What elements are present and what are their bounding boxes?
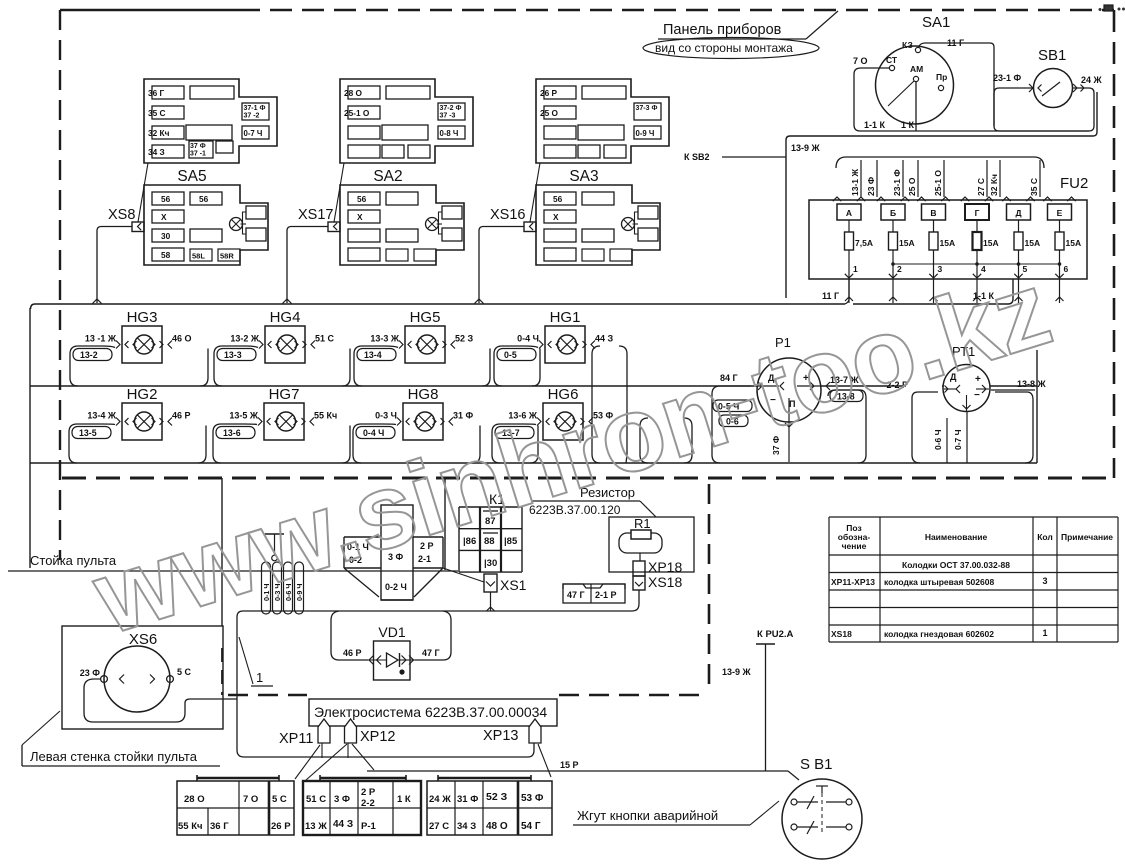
svg-text:37-2 Ф: 37-2 Ф	[440, 105, 462, 112]
svg-text:вид со стороны монтажа: вид со стороны монтажа	[655, 41, 793, 55]
svg-text:HG8: HG8	[408, 386, 439, 403]
svg-text:36 Г: 36 Г	[148, 88, 165, 98]
svg-text:13-5 Ж: 13-5 Ж	[229, 411, 259, 421]
svg-text:13 Ж: 13 Ж	[305, 821, 327, 832]
svg-text:1: 1	[853, 264, 858, 274]
svg-text:13-4 Ж: 13-4 Ж	[87, 411, 117, 421]
svg-text:−: −	[974, 390, 980, 401]
svg-text:X: X	[553, 212, 559, 222]
svg-text:27 С: 27 С	[429, 821, 449, 832]
svg-text:58R: 58R	[220, 252, 234, 261]
svg-text:1: 1	[1042, 628, 1047, 638]
svg-text:7 О: 7 О	[853, 56, 868, 66]
svg-text:15 Р: 15 Р	[560, 760, 579, 770]
svg-text:47 Г: 47 Г	[567, 590, 585, 600]
svg-text:13-3: 13-3	[224, 350, 242, 360]
svg-text:13 -1 Ж: 13 -1 Ж	[85, 334, 117, 344]
svg-text:36 Г: 36 Г	[210, 821, 229, 832]
svg-text:56: 56	[553, 194, 563, 204]
svg-text:32 Кч: 32 Кч	[989, 174, 999, 196]
svg-text:54 Г: 54 Г	[521, 821, 541, 832]
svg-text:26 Р: 26 Р	[271, 821, 291, 832]
svg-text:7 О: 7 О	[243, 794, 258, 805]
svg-text:Левая стенка стойки пульта: Левая стенка стойки пульта	[30, 749, 198, 764]
svg-text:1 К: 1 К	[901, 120, 915, 130]
svg-text:13-8 Ж: 13-8 Ж	[1017, 379, 1047, 389]
svg-text:SA3: SA3	[569, 168, 598, 185]
svg-text:13-3 Ж: 13-3 Ж	[370, 334, 400, 344]
svg-text:28 О: 28 О	[344, 88, 363, 98]
svg-text:HG4: HG4	[270, 309, 301, 326]
svg-text:23-1 Ф: 23-1 Ф	[892, 169, 902, 196]
svg-text:2: 2	[897, 264, 902, 274]
svg-text:56: 56	[199, 194, 209, 204]
svg-text:X: X	[357, 212, 363, 222]
svg-text:51 С: 51 С	[315, 334, 335, 344]
svg-text:1 К: 1 К	[397, 794, 411, 805]
svg-text:0-5: 0-5	[504, 350, 517, 360]
svg-text:XS1: XS1	[500, 577, 527, 593]
svg-text:R1: R1	[634, 516, 651, 531]
svg-text:Жгут кнопки аварийной: Жгут кнопки аварийной	[577, 808, 718, 823]
svg-text:К SB2: К SB2	[684, 152, 710, 162]
svg-text:ХР18: ХР18	[648, 559, 682, 575]
svg-text:3 Ф: 3 Ф	[334, 794, 350, 805]
svg-text:HG1: HG1	[550, 309, 581, 326]
svg-text:колодка гнездовая 602602: колодка гнездовая 602602	[884, 629, 994, 639]
svg-text:3: 3	[938, 264, 943, 274]
svg-text:15А: 15А	[940, 238, 956, 248]
svg-text:37-1 Ф: 37-1 Ф	[244, 105, 266, 112]
svg-text:13-1 Ж: 13-1 Ж	[850, 169, 860, 196]
svg-text:0-4 Ч: 0-4 Ч	[517, 334, 539, 344]
svg-text:15А: 15А	[983, 238, 999, 248]
svg-text:32 Кч: 32 Кч	[148, 128, 170, 138]
svg-text:0-2 Ч: 0-2 Ч	[385, 582, 407, 592]
svg-text:0-3 Ч: 0-3 Ч	[375, 411, 397, 421]
svg-text:Колодки ОСТ 37.00.032-88: Колодки ОСТ 37.00.032-88	[902, 560, 1010, 570]
svg-text:48 О: 48 О	[486, 821, 508, 832]
svg-text:Электросистема 6223В.37.00.000: Электросистема 6223В.37.00.00034	[314, 704, 547, 720]
svg-text:15А: 15А	[1025, 238, 1041, 248]
svg-text:HG5: HG5	[410, 309, 441, 326]
svg-text:ХР12: ХР12	[360, 729, 395, 745]
svg-text:0-8 Ч: 0-8 Ч	[440, 129, 459, 138]
svg-text:Пр: Пр	[936, 72, 947, 82]
svg-text:SA2: SA2	[373, 168, 402, 185]
svg-text:58: 58	[161, 250, 171, 260]
svg-text:SA5: SA5	[177, 168, 206, 185]
svg-text:56: 56	[161, 194, 171, 204]
svg-text:1-1 К: 1-1 К	[864, 120, 886, 130]
svg-text:чение: чение	[842, 541, 867, 551]
svg-text:0-6 Ч: 0-6 Ч	[933, 429, 943, 450]
svg-text:30: 30	[161, 231, 171, 241]
svg-text:37 Ф: 37 Ф	[190, 143, 206, 150]
svg-text:15А: 15А	[899, 238, 915, 248]
svg-text:Примечание: Примечание	[1061, 532, 1113, 542]
svg-text:XS18: XS18	[831, 629, 852, 639]
svg-text:46 О: 46 О	[172, 334, 192, 344]
svg-text:Г: Г	[975, 208, 980, 218]
svg-text:В: В	[930, 208, 936, 218]
svg-text:1: 1	[256, 670, 263, 685]
svg-text:VD1: VD1	[378, 624, 405, 640]
svg-text:23-1 Ф: 23-1 Ф	[993, 73, 1022, 83]
svg-text:24 Ж: 24 Ж	[429, 794, 451, 805]
svg-text:46 Р: 46 Р	[172, 411, 191, 421]
svg-text:58L: 58L	[192, 252, 205, 261]
svg-text:13-2 Ж: 13-2 Ж	[230, 334, 260, 344]
svg-text:15А: 15А	[1066, 238, 1082, 248]
svg-text:47 Г: 47 Г	[422, 648, 440, 658]
svg-text:ХР11-ХР13: ХР11-ХР13	[831, 577, 875, 587]
svg-text:|30: |30	[484, 558, 497, 569]
svg-text:Р-1: Р-1	[361, 821, 377, 832]
svg-text:25-1 О: 25-1 О	[933, 170, 943, 196]
svg-text:13-2: 13-2	[80, 350, 98, 360]
svg-text:44 З: 44 З	[595, 334, 614, 344]
svg-text:37 -1: 37 -1	[190, 151, 206, 158]
svg-text:13-4: 13-4	[364, 350, 382, 360]
svg-text:37 -2: 37 -2	[244, 113, 260, 120]
svg-text:44 З: 44 З	[333, 819, 353, 830]
svg-text:34 З: 34 З	[457, 821, 476, 832]
svg-text:0-4 Ч: 0-4 Ч	[363, 428, 384, 438]
svg-text:35 С: 35 С	[148, 108, 166, 118]
svg-text:S В1: S В1	[800, 756, 833, 773]
svg-text:52 З: 52 З	[455, 334, 474, 344]
svg-text:Е: Е	[1057, 208, 1063, 218]
svg-text:XS16: XS16	[490, 207, 525, 223]
svg-text:23 Ф: 23 Ф	[80, 668, 101, 678]
svg-text:7,5А: 7,5А	[855, 238, 873, 248]
svg-text:SA1: SA1	[922, 14, 950, 31]
svg-text:27 С: 27 С	[976, 178, 986, 196]
svg-text:31 Ф: 31 Ф	[457, 794, 478, 805]
svg-text:26 Р: 26 Р	[540, 88, 558, 98]
svg-text:Д: Д	[1015, 208, 1021, 218]
svg-text:XS17: XS17	[298, 207, 333, 223]
svg-text:Б: Б	[890, 208, 896, 218]
svg-text:25 О: 25 О	[540, 108, 559, 118]
svg-text:3: 3	[1042, 576, 1047, 586]
svg-text:5 С: 5 С	[177, 667, 192, 677]
svg-text:К PU2.A: К PU2.A	[757, 629, 794, 640]
svg-text:46 Р: 46 Р	[343, 648, 362, 658]
svg-text:53 Ф: 53 Ф	[521, 793, 544, 804]
svg-text:КЗ: КЗ	[902, 40, 913, 50]
svg-text:X: X	[161, 212, 167, 222]
svg-text:37-3 Ф: 37-3 Ф	[636, 105, 658, 112]
svg-text:СТ: СТ	[886, 55, 898, 65]
svg-text:37 -3: 37 -3	[440, 113, 456, 120]
svg-text:АМ: АМ	[910, 64, 923, 74]
svg-text:0-9 Ч: 0-9 Ч	[636, 129, 655, 138]
svg-text:ХР13: ХР13	[483, 728, 518, 744]
svg-text:23 Ф: 23 Ф	[866, 177, 876, 196]
svg-text:0-7 Ч: 0-7 Ч	[953, 429, 963, 450]
svg-text:34 З: 34 З	[148, 147, 165, 157]
svg-text:HG7: HG7	[269, 386, 300, 403]
svg-text:25 О: 25 О	[907, 177, 917, 196]
svg-text:HG2: HG2	[127, 386, 158, 403]
svg-text:13-9 Ж: 13-9 Ж	[791, 143, 821, 153]
svg-text:28 О: 28 О	[184, 794, 205, 805]
svg-text:51 С: 51 С	[306, 794, 326, 805]
svg-text:ХР11: ХР11	[279, 731, 313, 747]
svg-text:25-1 О: 25-1 О	[344, 108, 370, 118]
svg-text:колодка штыревая 502608: колодка штыревая 502608	[884, 577, 994, 587]
svg-text:Наименование: Наименование	[925, 532, 988, 542]
svg-text:2-2: 2-2	[361, 798, 375, 809]
svg-text:55 Кч: 55 Кч	[178, 821, 203, 832]
svg-text:2-1 Р: 2-1 Р	[595, 590, 617, 600]
svg-text:56: 56	[357, 194, 367, 204]
svg-text:FU2: FU2	[1060, 175, 1088, 192]
svg-text:52 З: 52 З	[486, 791, 508, 803]
svg-text:HG3: HG3	[127, 309, 158, 326]
svg-text:Кол: Кол	[1037, 532, 1053, 542]
svg-text:6: 6	[1064, 264, 1069, 274]
svg-text:13-6: 13-6	[223, 428, 241, 438]
svg-text:13-5: 13-5	[79, 428, 97, 438]
svg-text:35 С: 35 С	[1029, 178, 1039, 196]
svg-text:0-7 Ч: 0-7 Ч	[244, 129, 263, 138]
svg-text:SB1: SB1	[1038, 47, 1066, 64]
svg-text:11 Г: 11 Г	[822, 291, 839, 301]
svg-text:55 Кч: 55 Кч	[314, 411, 337, 421]
svg-text:5 С: 5 С	[272, 794, 287, 805]
svg-text:XS8: XS8	[108, 207, 135, 223]
svg-text:13-9 Ж: 13-9 Ж	[722, 667, 752, 677]
svg-text:XS18: XS18	[648, 574, 682, 590]
svg-text:|85: |85	[504, 536, 518, 547]
svg-text:Панель приборов: Панель приборов	[663, 22, 782, 38]
svg-text:А: А	[846, 208, 852, 218]
svg-text:24 Ж: 24 Ж	[1081, 75, 1103, 85]
svg-text:31 Ф: 31 Ф	[453, 411, 474, 421]
svg-text:2 Р: 2 Р	[361, 787, 376, 798]
